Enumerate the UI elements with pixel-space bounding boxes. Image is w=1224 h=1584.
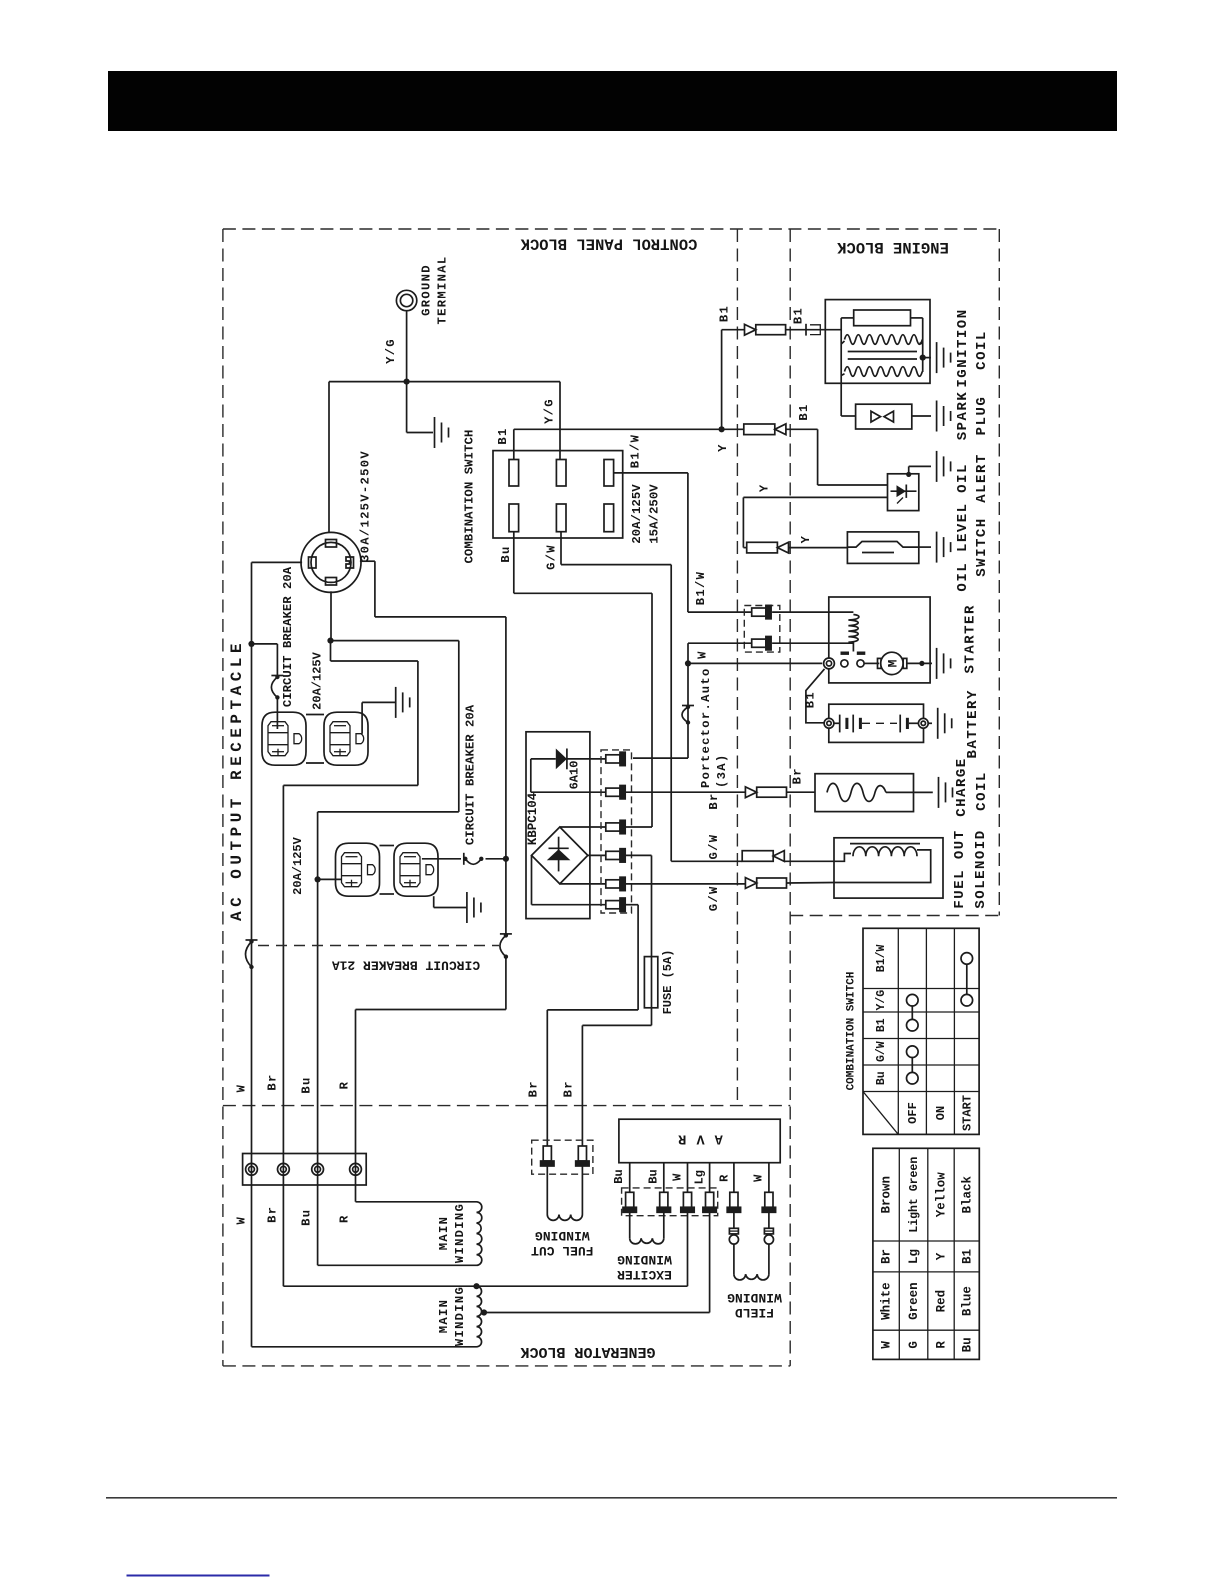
svg-text:OIL: OIL: [955, 463, 971, 493]
circuit breaker 21A left: [249, 939, 253, 943]
svg-text:SOLENOID: SOLENOID: [973, 829, 989, 908]
svg-text:R: R: [718, 1174, 732, 1182]
bridge rectifier diamond: [532, 827, 588, 884]
fuel cut winding coil: [547, 1166, 582, 1220]
circuit breaker 21A right: [504, 933, 508, 937]
svg-text:CHARGE: CHARGE: [954, 757, 970, 816]
svg-text:CIRCUIT BREAKER 21A: CIRCUIT BREAKER 21A: [332, 957, 480, 972]
connector G/W fuel solenoid upper: [742, 851, 773, 862]
junction main winding 2 tap: [481, 1309, 487, 1315]
terminal Bu: [312, 1163, 324, 1175]
svg-text:W: W: [880, 1341, 894, 1349]
starter main contact: [824, 658, 835, 669]
ground symbol charge coil: [938, 777, 940, 808]
wire W net left: [252, 562, 477, 1346]
svg-text:B1/W: B1/W: [875, 945, 888, 973]
svg-text:CONTROL PANEL BLOCK: CONTROL PANEL BLOCK: [520, 234, 697, 252]
connector block 2pin dashed box: [744, 606, 780, 653]
ground symbol starter: [936, 648, 938, 679]
svg-text:FUSE (5A): FUSE (5A): [661, 950, 675, 1015]
svg-text:Green: Green: [907, 1282, 921, 1320]
wire R net: [356, 561, 506, 1202]
wire G/W lower: [625, 883, 745, 885]
connector pin5 G/W: [606, 880, 620, 888]
oil alert box: [888, 474, 919, 511]
ground wire pair2: [434, 896, 467, 907]
junction starter ground: [919, 661, 924, 666]
connector pin B1/W: [752, 608, 766, 616]
wire Br net to charge coil: [625, 791, 815, 793]
svg-text:AC OUTPUT RECEPTACLE: AC OUTPUT RECEPTACLE: [228, 639, 246, 921]
wire W net starter: [633, 643, 853, 758]
svg-text:6A10: 6A10: [568, 761, 582, 790]
svg-text:Portector.Auto: Portector.Auto: [699, 667, 713, 788]
ground symbol pair1: [395, 687, 397, 718]
battery box: [829, 704, 924, 742]
wire pin6 to fuel cut: [547, 905, 638, 1146]
svg-text:Y/G: Y/G: [543, 398, 557, 424]
svg-text:Black: Black: [960, 1175, 974, 1213]
connector pin4: [606, 851, 620, 859]
junction Y/G: [404, 379, 410, 385]
fuel out solenoid box: [834, 838, 943, 898]
svg-text:Br: Br: [562, 1080, 576, 1097]
svg-text:W: W: [696, 650, 710, 659]
svg-text:Bu: Bu: [960, 1337, 974, 1352]
label CHARGE COIL: [954, 757, 990, 816]
svg-text:B1: B1: [875, 1018, 888, 1032]
table START contacts: [961, 953, 973, 1006]
connector Y-B1 lead: [744, 424, 775, 435]
svg-text:TERMINAL: TERMINAL: [436, 256, 450, 325]
mechanical link breaker 21A: [258, 945, 499, 947]
labels AVR pins: [612, 1169, 766, 1184]
footer rule: [106, 1497, 1117, 1499]
footer blue link line: [127, 1575, 270, 1577]
table row labels: [875, 945, 888, 1086]
wire diode leg to pin2: [531, 759, 606, 792]
label FUEL OUT SOLENOID: [952, 829, 989, 908]
connector B1 ignition mate: [786, 324, 842, 336]
svg-text:20A/125V: 20A/125V: [311, 651, 325, 709]
svg-text:20A/125V: 20A/125V: [291, 836, 305, 894]
junction Bu 30A: [327, 638, 333, 644]
AVR pin Lg: [706, 1192, 714, 1207]
svg-text:Yellow: Yellow: [935, 1172, 949, 1218]
combination switch terminals: [509, 460, 614, 532]
svg-text:A V R: A V R: [677, 1131, 723, 1146]
circuit breaker Portector.Auto 3A: [686, 705, 690, 709]
wire Y oil level net: [743, 497, 887, 547]
svg-text:Bu: Bu: [612, 1169, 626, 1183]
engine block dashed border: [790, 229, 999, 1366]
label SPARK PLUG: [955, 391, 990, 441]
svg-text:B1: B1: [496, 427, 510, 444]
svg-text:(3A): (3A): [715, 754, 729, 788]
svg-text:W: W: [671, 1173, 685, 1181]
svg-text:COIL: COIL: [974, 771, 990, 811]
wire Br net: [283, 661, 418, 1286]
wire ignition to ground: [923, 357, 931, 359]
svg-text:MAIN: MAIN: [437, 1216, 451, 1250]
ground wire pair1: [362, 702, 396, 733]
connector B1 ignition lead: [745, 324, 756, 335]
svg-text:MAIN: MAIN: [437, 1299, 451, 1333]
connector Y oil level: [747, 542, 789, 553]
svg-text:B1: B1: [803, 691, 817, 708]
svg-text:EXCITER: EXCITER: [617, 1267, 672, 1282]
brush W: [764, 1212, 773, 1244]
battery cells symbol: [834, 715, 919, 733]
svg-text:Br: Br: [707, 792, 721, 809]
wire battery to ground: [928, 722, 932, 724]
label IGNITION COIL: [955, 308, 990, 387]
svg-text:FUEL OUT: FUEL OUT: [952, 829, 968, 908]
connector pin6 Br: [606, 901, 620, 909]
terminal Br: [278, 1163, 290, 1175]
svg-text:M: M: [886, 659, 901, 667]
ground symbol battery: [937, 708, 939, 739]
svg-text:Y: Y: [716, 443, 730, 452]
circuit breaker 20A no.2: [463, 857, 467, 861]
svg-text:Lg: Lg: [907, 1249, 921, 1264]
label 20A/125V 15A/250V: [630, 484, 662, 544]
junction oil alert top: [906, 472, 911, 477]
connector fuel cut dashed box: [532, 1140, 593, 1174]
svg-text:Bu: Bu: [299, 1209, 313, 1226]
svg-text:Br: Br: [880, 1249, 894, 1264]
svg-text:STARTER: STARTER: [963, 604, 979, 673]
label FIELD WINDING: [727, 1290, 782, 1320]
wire B1 starter to battery: [806, 669, 825, 723]
generator block dashed border: [223, 1106, 790, 1366]
terminal W: [246, 1163, 258, 1175]
svg-text:Br: Br: [266, 1073, 280, 1090]
svg-text:Br: Br: [527, 1080, 541, 1097]
wire B1/W to solenoid coil: [772, 611, 853, 613]
svg-text:Br: Br: [790, 767, 804, 784]
connector Br charge coil: [745, 787, 756, 798]
AVR pin W2: [765, 1192, 773, 1207]
wire oil alert to ground: [909, 466, 931, 474]
svg-text:Lg: Lg: [693, 1170, 707, 1184]
oil level switch symbol: [847, 542, 918, 553]
strap pair2: [380, 846, 395, 895]
wire Br to main winding2 top: [283, 1285, 476, 1287]
svg-text:R: R: [935, 1341, 949, 1349]
svg-text:G/W: G/W: [707, 885, 721, 911]
svg-text:ON: ON: [934, 1106, 948, 1120]
wire Y/G net: [329, 311, 560, 534]
svg-text:ENGINE BLOCK: ENGINE BLOCK: [836, 238, 948, 256]
svg-text:OFF: OFF: [906, 1102, 920, 1124]
starter contacts: [841, 660, 864, 667]
color code table grid: [873, 1148, 979, 1359]
svg-text:Blue: Blue: [960, 1286, 974, 1316]
svg-text:Bu: Bu: [647, 1169, 661, 1183]
label MAIN WINDING 1: [437, 1203, 467, 1263]
ignition coil internals: [841, 310, 923, 376]
svg-text:IGNITION: IGNITION: [955, 308, 971, 387]
svg-text:B1/W: B1/W: [694, 571, 708, 605]
junction B1: [719, 426, 725, 432]
svg-text:W: W: [751, 1174, 765, 1182]
svg-text:COIL: COIL: [974, 330, 990, 370]
ground terminal: [396, 290, 416, 310]
bridge wires to pins: [532, 827, 606, 905]
svg-text:W: W: [235, 1084, 249, 1093]
svg-text:Y/G: Y/G: [384, 338, 398, 364]
bridge inner diode: [547, 837, 571, 872]
wire Bu to connector pin3: [514, 532, 652, 827]
wire Bu net: [318, 591, 477, 1265]
wire Lg avr to main winding2 tap: [484, 1212, 710, 1312]
label OIL ALERT: [955, 453, 990, 503]
header black bar: [108, 71, 1117, 131]
charge coil winding: [827, 783, 886, 801]
circuit breaker 20A no.1: [275, 675, 279, 679]
AVR pin wires: [630, 1163, 769, 1193]
svg-text:SPARK: SPARK: [955, 391, 971, 441]
junction ignition ground: [920, 355, 926, 361]
color table texts: [880, 1157, 975, 1353]
svg-text:G: G: [907, 1341, 921, 1349]
svg-text:WINDING: WINDING: [617, 1252, 672, 1267]
svg-text:OIL LEVEL: OIL LEVEL: [955, 502, 971, 591]
AVR pin Bu2: [660, 1192, 668, 1207]
wire spark plug to ground: [912, 415, 931, 417]
AVR pin W: [683, 1192, 691, 1207]
KBPC104 box: [526, 732, 590, 919]
ground symbol oil alert: [936, 451, 938, 482]
wire W avr to main winding2: [477, 1212, 688, 1286]
wire pin4 to fuse: [625, 855, 651, 956]
connector block 6pin dashed box: [601, 750, 632, 913]
svg-text:G/W: G/W: [875, 1041, 888, 1062]
ignition coil box: [825, 300, 930, 384]
svg-text:WINDING: WINDING: [727, 1290, 782, 1305]
svg-text:15A/250V: 15A/250V: [648, 484, 662, 544]
combination switch table grid: [863, 928, 979, 1134]
fuel solenoid coil: [834, 844, 931, 883]
ground symbol control panel: [434, 417, 436, 448]
svg-text:WINDING: WINDING: [453, 1203, 467, 1263]
ground symbol oil level switch: [936, 532, 938, 563]
svg-text:SWITCH: SWITCH: [974, 517, 990, 576]
main winding 2: [477, 1286, 482, 1347]
label MAIN WINDING 2: [437, 1286, 467, 1346]
exciter winding: [630, 1212, 664, 1244]
AVR box: [619, 1119, 780, 1163]
connector G/W fuel solenoid lower: [745, 878, 756, 889]
ground symbol pair2: [466, 892, 468, 923]
connector pin W: [752, 639, 766, 647]
ground symbol spark plug: [936, 401, 938, 432]
junction W starter: [685, 660, 691, 666]
svg-text:Y: Y: [935, 1252, 949, 1260]
svg-text:Y/G: Y/G: [875, 990, 888, 1011]
wire G/W to fuel solenoid connector: [561, 532, 742, 862]
wire fuse to fuel cut: [582, 1008, 651, 1146]
svg-text:CIRCUIT BREAKER 20A: CIRCUIT BREAKER 20A: [464, 704, 478, 845]
main winding 1: [477, 1202, 482, 1266]
svg-text:B1: B1: [792, 307, 806, 324]
svg-text:FIELD: FIELD: [735, 1305, 774, 1320]
svg-text:START: START: [960, 1095, 974, 1131]
svg-text:Y: Y: [799, 535, 813, 544]
fuse 5A: [644, 957, 657, 1008]
labels wires above terminals: [235, 1073, 352, 1093]
table column labels: [906, 1095, 975, 1131]
svg-text:R: R: [338, 1214, 352, 1223]
svg-text:WINDING: WINDING: [535, 1228, 590, 1243]
starter solenooid coil: [848, 615, 858, 643]
starter contact actuator: [841, 642, 866, 655]
svg-text:R: R: [338, 1081, 352, 1090]
svg-text:GENERATOR BLOCK: GENERATOR BLOCK: [520, 1343, 655, 1360]
svg-text:W: W: [235, 1216, 249, 1225]
connector pin2 Br: [606, 788, 620, 796]
svg-text:BATTERY: BATTERY: [965, 689, 981, 758]
svg-text:G/W: G/W: [707, 834, 721, 860]
receptacle duplex pair2 left outlet: [336, 843, 380, 896]
svg-text:30A/125V-250V: 30A/125V-250V: [359, 450, 373, 562]
svg-text:White: White: [880, 1282, 894, 1320]
labels wires below terminals: [235, 1206, 352, 1226]
svg-text:Brown: Brown: [880, 1176, 894, 1214]
svg-text:KBPC104: KBPC104: [526, 792, 540, 845]
oil alert thyristor symbol: [891, 485, 917, 504]
svg-text:ALERT: ALERT: [974, 453, 990, 503]
svg-text:FUEL CUT: FUEL CUT: [531, 1243, 594, 1258]
wire pin3 to Bu: [625, 826, 652, 828]
terminal strip box: [243, 1154, 367, 1186]
svg-text:Red: Red: [935, 1290, 949, 1313]
label EXCITER WINDING: [617, 1252, 672, 1282]
AVR connector dashed box: [622, 1188, 718, 1216]
svg-text:B1: B1: [797, 403, 811, 420]
starter box: [829, 597, 930, 683]
label Portector.Auto (3A): [699, 667, 729, 788]
receptacle duplex pair2 right outlet: [394, 843, 438, 896]
svg-text:B1/W: B1/W: [629, 434, 643, 468]
receptacle duplex pair1 left outlet: [262, 712, 306, 765]
fuel cut pin right: [578, 1146, 586, 1161]
svg-text:Light Green: Light Green: [908, 1157, 921, 1233]
spark gap symbol: [871, 411, 894, 422]
junction Bu outlet2: [315, 876, 321, 882]
svg-text:B1: B1: [718, 305, 732, 322]
fuel cut pin left: [543, 1146, 551, 1161]
wire B1 net: [514, 330, 745, 460]
control panel block dashed border: [223, 229, 999, 1366]
strap pair1: [306, 715, 324, 764]
receptacle duplex pair1 right outlet: [324, 712, 368, 765]
svg-text:Bu: Bu: [499, 545, 513, 562]
svg-text:PLUG: PLUG: [974, 396, 990, 436]
wire B1/W net: [614, 473, 752, 612]
battery terminals: [824, 718, 928, 728]
wire ignition to spark plug: [841, 372, 855, 416]
svg-text:COMBINATION SWITCH: COMBINATION SWITCH: [846, 972, 858, 1091]
svg-text:Br: Br: [266, 1206, 280, 1223]
junction R node: [503, 856, 509, 862]
svg-text:Bu: Bu: [299, 1076, 313, 1093]
svg-text:G/W: G/W: [545, 544, 559, 570]
connector pin3 Bu: [606, 823, 620, 831]
table OFF contacts: [907, 994, 919, 1084]
AVR pin Bu1: [626, 1192, 634, 1207]
svg-text:GROUND: GROUND: [420, 264, 434, 316]
label OIL LEVEL SWITCH: [955, 502, 990, 591]
wire charge coil to ground: [886, 791, 933, 793]
svg-text:Bu: Bu: [875, 1071, 888, 1085]
terminal R: [350, 1163, 362, 1175]
diode 6A10: [531, 749, 606, 770]
label GROUND TERMINAL: [420, 256, 450, 325]
svg-text:20A/125V: 20A/125V: [630, 484, 644, 544]
AVR pin R: [730, 1192, 738, 1207]
oil level switch box: [847, 532, 918, 564]
connector pin1: [606, 755, 620, 763]
junction main winding 2 top: [473, 1283, 479, 1289]
svg-text:COMBINATION SWITCH: COMBINATION SWITCH: [463, 430, 477, 564]
brush R: [729, 1212, 738, 1244]
junction W: [248, 641, 254, 647]
receptacle 30A 125V-250V: [301, 532, 361, 592]
starter motor M: [864, 652, 932, 674]
svg-text:WINDING: WINDING: [453, 1286, 467, 1346]
spark plug box: [856, 404, 912, 429]
svg-text:CIRCUIT BREAKER 20A: CIRCUIT BREAKER 20A: [281, 566, 295, 707]
field winding coil: [734, 1244, 769, 1280]
ground symbol ignition coil: [936, 342, 938, 373]
svg-text:Y: Y: [758, 483, 772, 492]
combination switch box: [493, 451, 623, 538]
label FUEL CUT WINDING: [531, 1228, 594, 1258]
wire Y to oil alert: [786, 429, 888, 485]
wire oil level to ground: [919, 546, 931, 548]
svg-text:B1: B1: [960, 1249, 974, 1264]
charge coil box: [815, 774, 914, 812]
